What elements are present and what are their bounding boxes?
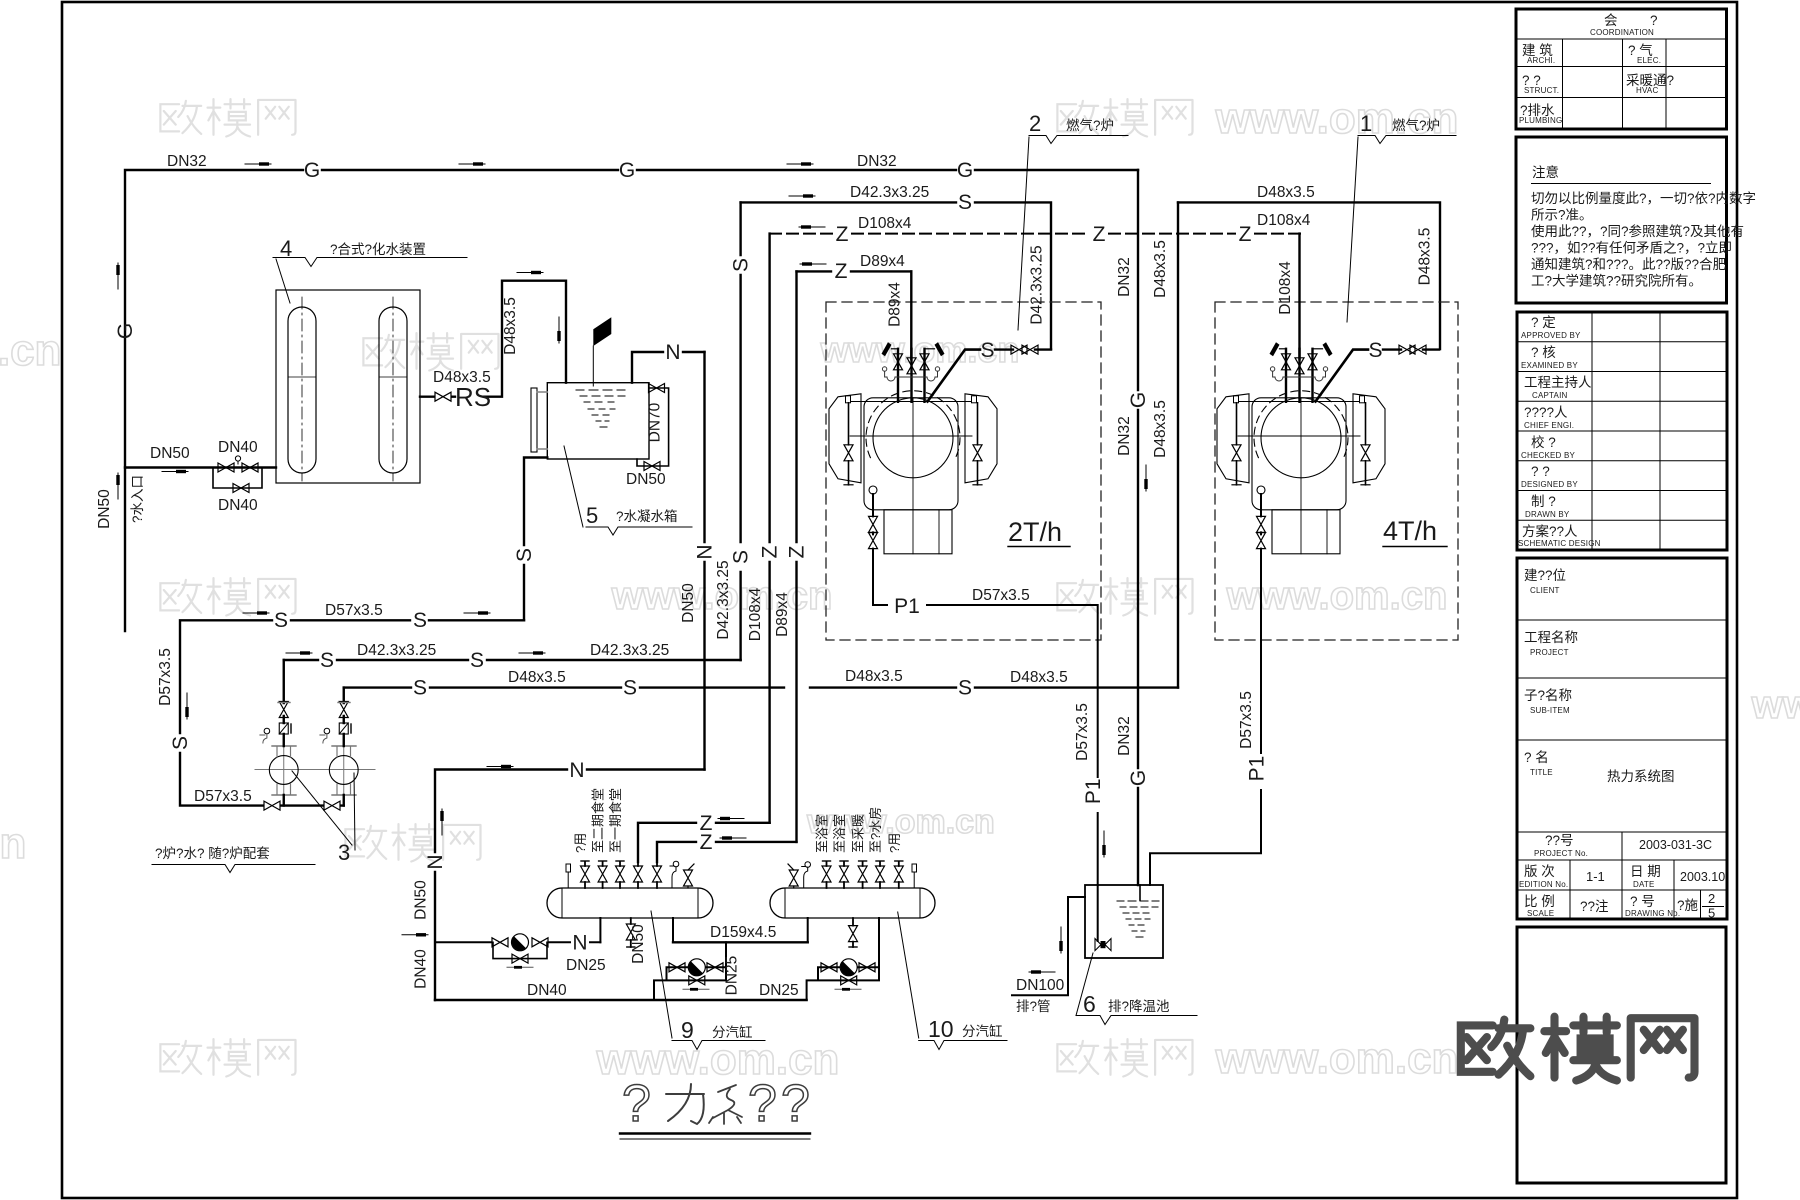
bypass loop with valve on inlet <box>213 468 262 489</box>
pipe Z riser x=796.5 down to header 9 <box>795 271 797 842</box>
svg-text:S: S <box>623 677 637 700</box>
svg-text:P1: P1 <box>1246 756 1269 782</box>
svg-text:?水入口: ?水入口 <box>130 475 145 523</box>
svg-text:DN25: DN25 <box>566 957 606 974</box>
svg-text:所示?准。: 所示?准。 <box>1531 208 1593 223</box>
boiler room dashed box 4T/h <box>1215 302 1458 640</box>
boiler 1 (4T/h) <box>1217 339 1439 562</box>
svg-text:CLIENT: CLIENT <box>1530 586 1560 595</box>
flow arrow G header <box>245 162 271 165</box>
svg-text:D48x3.5: D48x3.5 <box>502 297 519 355</box>
svg-text:PROJECT: PROJECT <box>1530 648 1569 657</box>
svg-text:G: G <box>1127 770 1150 786</box>
svg-text:G: G <box>114 323 137 339</box>
svg-text:Z: Z <box>1093 223 1106 246</box>
svg-text:DN32: DN32 <box>857 153 897 170</box>
pipe G top header DN32 <box>125 170 1138 468</box>
pool G inlet stub <box>1139 885 1141 900</box>
header 10 pressure gauge <box>805 862 811 868</box>
pipe Z riser into boiler2 <box>910 271 912 359</box>
header 10 thermometer <box>912 864 917 872</box>
svg-text:1: 1 <box>1360 111 1372 136</box>
svg-text:www.om.cn: www.om.cn <box>1215 1034 1459 1083</box>
svg-text:S: S <box>413 677 427 700</box>
svg-text:至一期食堂: 至一期食堂 <box>608 788 623 853</box>
svg-text:P1: P1 <box>1082 778 1105 804</box>
blowdown pool 6 <box>1085 885 1163 958</box>
svg-text:Z: Z <box>700 831 713 854</box>
light watermarks <box>160 99 1192 1076</box>
flow arrow up inlet riser <box>116 473 119 499</box>
svg-text:子?名称: 子?名称 <box>1524 688 1572 703</box>
svg-text:?: ? <box>748 1075 777 1133</box>
pipe D159x4.5 link <box>673 941 808 943</box>
boiler 2 (2T/h) <box>829 339 1051 562</box>
svg-text:1-1: 1-1 <box>1586 869 1605 884</box>
svg-text:D108x4: D108x4 <box>858 215 912 232</box>
svg-text:至二期食堂: 至二期食堂 <box>591 788 606 853</box>
svg-text:切勿以比例量度此?，一切?依?内数字: 切勿以比例量度此?，一切?依?内数字 <box>1531 191 1756 206</box>
callout 10 steam header <box>898 912 919 1038</box>
svg-text:至采暖: 至采暖 <box>851 814 866 853</box>
pipe S feed header 2 D48x3.5 (pump2 to boiler1) <box>344 686 1178 688</box>
pipe S top header 1 D42.3x3.25 <box>741 202 1051 349</box>
svg-text:D57x3.5: D57x3.5 <box>1238 691 1255 749</box>
signature table box <box>1517 312 1727 550</box>
svg-text:G: G <box>1127 392 1150 408</box>
pipe RS treated water line D48x3.5 <box>420 281 566 397</box>
svg-text:分汽缸: 分汽缸 <box>962 1023 1003 1039</box>
pipe Z branch into header 9 nozzle a <box>638 823 770 862</box>
svg-text:APPROVED BY: APPROVED BY <box>1521 331 1581 340</box>
svg-text:?: ? <box>1650 13 1658 28</box>
svg-text:工程主持人: 工程主持人 <box>1524 375 1592 390</box>
pipe P1 blowdown boiler1 <box>1150 562 1261 885</box>
svg-text:S: S <box>958 191 972 214</box>
client and title box <box>1517 558 1727 919</box>
drawing big title <box>622 1075 810 1133</box>
svg-text:?施: ?施 <box>1677 898 1699 913</box>
callout 6 blowdown pool <box>1076 953 1093 1016</box>
coordination grid <box>1516 39 1727 129</box>
svg-text:2003-031-3C: 2003-031-3C <box>1639 838 1712 852</box>
svg-text:G: G <box>304 159 320 182</box>
svg-text:燃气?炉: 燃气?炉 <box>1392 117 1440 133</box>
svg-text:ARCHI.: ARCHI. <box>1527 56 1555 65</box>
valves on suction header <box>264 801 280 810</box>
svg-text:???，如??有任何矛盾之?，?立即: ???，如??有任何矛盾之?，?立即 <box>1531 241 1732 256</box>
svg-text:Z: Z <box>1239 223 1252 246</box>
svg-text:SCALE: SCALE <box>1527 909 1554 918</box>
svg-text:DN50: DN50 <box>630 924 647 964</box>
header 9 top nozzles with valves <box>585 862 657 888</box>
svg-text:D159x4.5: D159x4.5 <box>710 924 776 941</box>
svg-text:EXAMINED BY: EXAMINED BY <box>1521 361 1578 370</box>
svg-text:3: 3 <box>338 840 350 865</box>
svg-text:D48x3.5: D48x3.5 <box>508 669 566 686</box>
svg-text:Z: Z <box>835 260 848 283</box>
tank 5 vent flag <box>592 346 594 386</box>
svg-text:DESIGNED BY: DESIGNED BY <box>1521 480 1578 489</box>
svg-text:SUB-ITEM: SUB-ITEM <box>1530 706 1570 715</box>
svg-text:ELEC.: ELEC. <box>1637 56 1661 65</box>
pipe S suction main D57x3.5 <box>180 620 524 805</box>
svg-text:PLUMBING: PLUMBING <box>1519 116 1562 125</box>
svg-text:版 次: 版 次 <box>1524 864 1555 879</box>
svg-text:校 ?: 校 ? <box>1531 434 1556 450</box>
svg-text:D42.3x3.25: D42.3x3.25 <box>1029 245 1046 324</box>
svg-text:CHECKED BY: CHECKED BY <box>1521 451 1575 460</box>
svg-text:DN100: DN100 <box>1016 977 1065 994</box>
svg-text:通知建筑?和???。此??版??合肥: 通知建筑?和???。此??版??合肥 <box>1531 256 1726 272</box>
header 10 top nozzles with valves <box>827 862 899 888</box>
svg-text:D89x4: D89x4 <box>774 592 791 637</box>
pipe N riser to lower N main <box>703 352 705 770</box>
svg-text:方案??人: 方案??人 <box>1522 523 1578 539</box>
tank 4 water treatment unit box <box>276 290 420 483</box>
condensate pump at header 10 <box>807 967 879 1000</box>
svg-text:DN50: DN50 <box>626 471 666 488</box>
header 10 safety valve <box>789 870 798 886</box>
boiler room dashed box 2T/h <box>826 302 1101 640</box>
svg-text:DRAWING No.: DRAWING No. <box>1625 909 1680 918</box>
svg-text:G: G <box>619 159 635 182</box>
svg-text:比 例: 比 例 <box>1524 894 1555 909</box>
steam header 10 (分汽缸) <box>770 888 935 918</box>
condensate pump at header 9 (N line) <box>435 941 600 943</box>
svg-text:?水凝水箱: ?水凝水箱 <box>616 509 678 524</box>
svg-text:至浴室: 至浴室 <box>832 814 847 853</box>
svg-text:? ?: ? ? <box>1531 464 1550 479</box>
note text <box>1531 191 1756 289</box>
pool internal blowdown valve <box>1097 885 1099 941</box>
svg-text:DN40: DN40 <box>527 982 567 999</box>
svg-text:www.om.cn: www.om.cn <box>0 819 26 868</box>
pipe S riser 2 (x=1178) <box>1177 202 1179 687</box>
svg-text:? 名: ? 名 <box>1524 750 1549 765</box>
ion exchanger capsule left <box>288 307 316 473</box>
header 9 pressure gauge <box>673 861 679 867</box>
svg-text:S: S <box>730 258 753 272</box>
svg-text:制 ?: 制 ? <box>1531 494 1556 509</box>
flow arrow inlet <box>162 470 188 473</box>
svg-text:DN25: DN25 <box>759 982 799 999</box>
pipe DN40 bottom main <box>435 999 807 1001</box>
svg-text:Z: Z <box>786 545 809 558</box>
svg-text:S: S <box>958 677 972 700</box>
svg-text:2: 2 <box>1029 111 1041 136</box>
svg-text:排?管: 排?管 <box>1016 999 1051 1014</box>
svg-text:N: N <box>424 854 447 869</box>
svg-text:6: 6 <box>1083 991 1096 1017</box>
svg-text:D89x4: D89x4 <box>887 282 904 327</box>
svg-text:分汽缸: 分汽缸 <box>712 1024 753 1040</box>
svg-text:P1: P1 <box>894 595 920 618</box>
svg-text:至浴室: 至浴室 <box>815 814 830 853</box>
svg-text:EDITION No.: EDITION No. <box>1519 880 1568 889</box>
svg-text:S: S <box>274 609 288 632</box>
svg-text:4T/h: 4T/h <box>1383 516 1437 546</box>
flow arrow up on G riser <box>116 263 119 289</box>
svg-text:至?水房: 至?水房 <box>868 807 883 853</box>
svg-text:D57x3.5: D57x3.5 <box>157 648 174 706</box>
svg-text:D48x3.5: D48x3.5 <box>1417 228 1434 286</box>
svg-text:?用: ?用 <box>887 833 902 853</box>
pipe S pump suction from tank bottom <box>524 458 547 621</box>
pipe DN100 outfall <box>1012 897 1085 995</box>
pool water hatch <box>1117 901 1159 937</box>
svg-text:N: N <box>572 932 587 955</box>
coordination table box <box>1516 9 1727 129</box>
svg-text:CAPTAIN: CAPTAIN <box>1532 391 1568 400</box>
svg-text:10: 10 <box>928 1016 954 1042</box>
svg-text:D48x3.5: D48x3.5 <box>1257 184 1315 201</box>
tank 5 level gauge <box>531 388 537 452</box>
svg-text:D42.3x3.25: D42.3x3.25 <box>850 184 929 201</box>
svg-text:Z: Z <box>836 223 849 246</box>
flow arrows suction <box>243 611 269 614</box>
callout 5 condensate tank label <box>564 446 583 527</box>
svg-text:N: N <box>694 544 717 559</box>
svg-text:建??位: 建??位 <box>1524 568 1566 583</box>
svg-text:DN40: DN40 <box>413 949 430 989</box>
svg-text:工程名称: 工程名称 <box>1524 630 1578 645</box>
callout 3 boiler feed pumps <box>292 771 352 845</box>
svg-text:D42.3x3.25: D42.3x3.25 <box>715 560 732 639</box>
svg-text:DN50: DN50 <box>96 489 113 529</box>
pipe P1 blowdown boiler2 <box>873 562 1098 885</box>
pipe DN50 raw water inlet <box>125 468 276 632</box>
pipe S riser 1 (x=740.6) <box>739 202 741 660</box>
svg-text:9: 9 <box>681 1017 694 1043</box>
svg-text:D57x3.5: D57x3.5 <box>972 587 1030 604</box>
svg-text:RS: RS <box>455 382 491 412</box>
svg-text:? 定: ? 定 <box>1531 315 1556 330</box>
note box <box>1516 137 1727 303</box>
svg-text:D108x4: D108x4 <box>1277 261 1294 315</box>
svg-text:热力系统图: 热力系统图 <box>1607 769 1675 784</box>
pipe Z branch into header 9 nozzle b <box>657 842 797 862</box>
pipe Z steam header D108x4 dashed (boiler1) <box>770 233 1300 235</box>
svg-text:DN40: DN40 <box>218 497 258 514</box>
svg-text:D48x3.5: D48x3.5 <box>1152 400 1169 458</box>
tank 5 overflow loop DN70 <box>637 388 669 466</box>
svg-text:DN32: DN32 <box>1116 716 1133 756</box>
svg-text:燃气?炉: 燃气?炉 <box>1066 117 1114 133</box>
svg-text:5: 5 <box>586 503 598 528</box>
svg-text:DN70: DN70 <box>647 402 664 442</box>
svg-text:S: S <box>413 609 427 632</box>
tank 5 water hatch <box>576 390 625 427</box>
svg-text:G: G <box>957 159 973 182</box>
svg-text:D48x3.5: D48x3.5 <box>845 668 903 685</box>
condensate pump mid (D159 to DN40) <box>654 942 726 1000</box>
pipe N condensate into tank <box>632 352 705 383</box>
svg-text:SCHEMATIC DESIGN: SCHEMATIC DESIGN <box>1518 539 1601 548</box>
pipe Z riser into boiler1 <box>1298 234 1300 359</box>
header 10 bottom nozzles <box>807 918 809 942</box>
svg-text:DN50: DN50 <box>150 445 190 462</box>
svg-text:DN25: DN25 <box>724 956 741 996</box>
svg-text:DN50: DN50 <box>413 880 430 920</box>
feed pump 1 (item 3) <box>255 660 375 806</box>
svg-text:DRAWN BY: DRAWN BY <box>1525 510 1570 519</box>
svg-text:D42.3x3.25: D42.3x3.25 <box>590 642 669 659</box>
ion exchanger capsule right <box>379 307 407 473</box>
svg-text:D57x3.5: D57x3.5 <box>194 788 252 805</box>
svg-text:??注: ??注 <box>1580 899 1609 914</box>
header 9 bottom nozzles <box>599 918 601 942</box>
svg-text:D108x4: D108x4 <box>1257 212 1311 229</box>
pipe N return main <box>435 770 705 1001</box>
pipe S feed header 1 D42.3x3.25 (pump1 to boiler2) <box>284 659 741 661</box>
svg-text:TITLE: TITLE <box>1530 768 1553 777</box>
svg-text:工?大学建筑??研究院所有。: 工?大学建筑??研究院所有。 <box>1531 274 1702 289</box>
svg-text:S: S <box>470 649 484 672</box>
svg-text:?合式?化水装置: ?合式?化水装置 <box>330 242 426 257</box>
header 9 safety valve <box>684 870 693 886</box>
feed pump 2 (item 3) <box>320 688 358 806</box>
svg-text:STRUCT.: STRUCT. <box>1524 86 1559 95</box>
valve pair on inlet with gauge <box>218 463 234 472</box>
svg-text:CHIEF ENGI.: CHIEF ENGI. <box>1524 421 1574 430</box>
svg-text:D48x3.5: D48x3.5 <box>1010 669 1068 686</box>
svg-text:D108x4: D108x4 <box>747 587 764 641</box>
svg-text:?: ? <box>622 1075 651 1133</box>
svg-text:排?降温池: 排?降温池 <box>1108 999 1170 1014</box>
big dark watermark 欧模网 <box>1461 1017 1695 1081</box>
svg-text:N: N <box>569 759 584 782</box>
svg-text:?: ? <box>781 1075 810 1133</box>
svg-text:2003.10: 2003.10 <box>1680 870 1725 884</box>
svg-text:S: S <box>169 736 192 750</box>
tank 5 condensate tank <box>547 383 649 459</box>
svg-text:S: S <box>320 649 334 672</box>
flow arrow on riser top <box>517 271 543 274</box>
svg-text:2T/h: 2T/h <box>1008 517 1062 547</box>
svg-text:www.om.cn: www.om.cn <box>1751 683 1800 727</box>
svg-text:COORDINATION: COORDINATION <box>1590 28 1654 37</box>
svg-text:? 核: ? 核 <box>1531 345 1556 360</box>
svg-text:使用此??，?同?参照建筑?及其他有: 使用此??，?同?参照建筑?及其他有 <box>1531 223 1744 239</box>
svg-text:N: N <box>665 341 680 364</box>
svg-text:D42.3x3.25: D42.3x3.25 <box>357 642 436 659</box>
svg-text:DN32: DN32 <box>1116 257 1133 297</box>
svg-text:Z: Z <box>759 545 782 558</box>
svg-text:? 号: ? 号 <box>1630 894 1655 909</box>
flow arrow down into tank5 <box>557 317 560 343</box>
svg-text:D57x3.5: D57x3.5 <box>325 602 383 619</box>
svg-text:?炉?水? 随?炉配套: ?炉?水? 随?炉配套 <box>155 846 270 861</box>
svg-text:DN32: DN32 <box>1116 416 1133 456</box>
svg-text:2: 2 <box>1708 891 1715 906</box>
svg-text:DN32: DN32 <box>167 153 207 170</box>
svg-text:D89x4: D89x4 <box>860 253 905 270</box>
svg-text:DN50: DN50 <box>680 583 697 623</box>
pipe S top header 2 D48x3.5 <box>1178 202 1440 349</box>
pipe G riser DN32 to pool <box>1137 170 1139 885</box>
svg-text:S: S <box>513 548 536 562</box>
svg-text:D57x3.5: D57x3.5 <box>1074 703 1091 761</box>
callout 9 steam header <box>651 911 672 1038</box>
svg-text:5: 5 <box>1708 906 1715 921</box>
svg-text:HVAC: HVAC <box>1636 86 1658 95</box>
steam header 9 (分汽缸) <box>547 888 713 918</box>
pipe Z steam line D89x4 (boiler2) <box>797 270 912 272</box>
svg-text:PROJECT No.: PROJECT No. <box>1534 849 1588 858</box>
bottom empty box <box>1517 927 1726 1183</box>
svg-text:?用: ?用 <box>573 833 588 853</box>
svg-text:??号: ??号 <box>1545 833 1574 848</box>
svg-text:S: S <box>730 550 753 564</box>
header 9 thermometer <box>566 864 571 872</box>
svg-text:DATE: DATE <box>1633 880 1655 889</box>
svg-text:www.om.cn: www.om.cn <box>1226 574 1448 618</box>
svg-text:www.om.cn: www.om.cn <box>0 326 61 375</box>
valve on RS line <box>435 392 451 401</box>
svg-text:DN40: DN40 <box>218 439 258 456</box>
svg-text:会: 会 <box>1604 13 1618 28</box>
svg-text:注意: 注意 <box>1532 164 1559 180</box>
svg-text:????人: ????人 <box>1524 405 1568 420</box>
svg-text:日 期: 日 期 <box>1630 864 1661 879</box>
svg-text:D48x3.5: D48x3.5 <box>1152 240 1169 298</box>
pipe Z riser x=769.6 down to header 9 <box>768 234 770 823</box>
